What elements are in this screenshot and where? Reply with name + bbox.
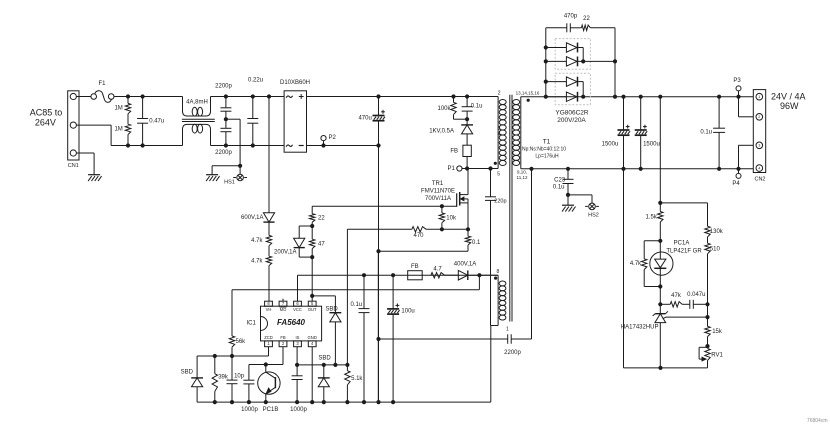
- svg-text:2: 2: [758, 115, 760, 119]
- svg-text:FB: FB: [411, 264, 419, 270]
- svg-text:0.47u: 0.47u: [149, 119, 164, 125]
- svg-text:0.1: 0.1: [472, 240, 481, 246]
- svg-text:SBD: SBD: [318, 356, 331, 362]
- svg-text:10p: 10p: [234, 373, 245, 379]
- svg-text:TR1: TR1: [432, 181, 444, 187]
- svg-text:OUT: OUT: [308, 307, 317, 312]
- svg-text:0.22u: 0.22u: [248, 77, 263, 83]
- svg-text:FB: FB: [280, 335, 286, 340]
- svg-text:4.7k: 4.7k: [251, 258, 263, 264]
- svg-text:T1: T1: [543, 139, 551, 146]
- svg-text:5.1k: 5.1k: [351, 376, 363, 382]
- svg-text:CN1: CN1: [68, 163, 79, 169]
- svg-text:P4: P4: [732, 181, 740, 187]
- svg-text:SBD: SBD: [325, 306, 338, 312]
- svg-text:1500u: 1500u: [602, 141, 619, 147]
- svg-text:13,14,15,16: 13,14,15,16: [516, 90, 540, 95]
- svg-text:IC1: IC1: [246, 320, 256, 326]
- svg-text:22: 22: [583, 16, 590, 22]
- svg-text:0.1u: 0.1u: [553, 185, 565, 191]
- svg-text:Lp=176uH: Lp=176uH: [535, 154, 559, 160]
- svg-text:2200p: 2200p: [215, 84, 232, 90]
- svg-text:200V/20A: 200V/20A: [557, 117, 586, 124]
- svg-text:D10XB60H: D10XB60H: [280, 80, 310, 86]
- svg-text:15k: 15k: [712, 329, 723, 335]
- svg-text:1: 1: [758, 95, 760, 99]
- svg-text:P2: P2: [329, 135, 337, 141]
- svg-text:1000p: 1000p: [241, 407, 258, 413]
- svg-text:GND: GND: [308, 335, 317, 340]
- svg-text:P3: P3: [733, 78, 741, 84]
- svg-text:P1: P1: [447, 166, 455, 172]
- svg-text:YG806C2R: YG806C2R: [555, 110, 589, 117]
- svg-text:8: 8: [497, 269, 500, 275]
- svg-text:11,12: 11,12: [517, 175, 528, 180]
- svg-text:470p: 470p: [564, 13, 578, 19]
- svg-text:F1: F1: [98, 81, 106, 87]
- svg-text:HS2: HS2: [588, 213, 599, 219]
- svg-text:0.1u: 0.1u: [351, 302, 363, 308]
- svg-text:200V,1A: 200V,1A: [274, 250, 296, 256]
- svg-text:56k: 56k: [236, 339, 247, 345]
- svg-text:47: 47: [318, 241, 325, 247]
- svg-text:400V,1A: 400V,1A: [454, 261, 476, 267]
- svg-text:22: 22: [318, 215, 325, 221]
- svg-text:0.047u: 0.047u: [687, 292, 705, 298]
- svg-text:220p: 220p: [494, 198, 506, 204]
- svg-text:1500u: 1500u: [643, 141, 660, 147]
- svg-text:4.7k: 4.7k: [630, 261, 642, 267]
- svg-text:4.7: 4.7: [433, 266, 442, 272]
- svg-text:76804cm: 76804cm: [807, 418, 828, 424]
- svg-text:CN2: CN2: [754, 176, 765, 182]
- svg-text:4A,8mH: 4A,8mH: [186, 100, 208, 106]
- svg-text:96W: 96W: [780, 101, 799, 111]
- svg-text:100k: 100k: [437, 106, 451, 112]
- svg-text:TLP421F GR: TLP421F GR: [666, 248, 702, 254]
- svg-text:470u: 470u: [358, 115, 371, 121]
- svg-text:FB: FB: [450, 148, 458, 154]
- svg-text:5: 5: [497, 172, 500, 178]
- svg-text:1M: 1M: [114, 126, 122, 132]
- svg-text:9,10,: 9,10,: [517, 169, 527, 174]
- svg-text:1: 1: [506, 327, 509, 333]
- svg-text:RV1: RV1: [711, 353, 723, 359]
- svg-text:SBD: SBD: [181, 369, 194, 375]
- svg-text:VCC: VCC: [293, 307, 302, 312]
- svg-text:39k: 39k: [218, 375, 229, 381]
- svg-text:2200p: 2200p: [215, 150, 232, 156]
- svg-text:PC1B: PC1B: [263, 407, 279, 413]
- svg-text:AC85 to: AC85 to: [30, 107, 63, 117]
- svg-text:10k: 10k: [446, 215, 457, 221]
- svg-text:3: 3: [758, 144, 760, 148]
- svg-text:0.1u: 0.1u: [471, 104, 483, 110]
- svg-text:MO: MO: [280, 307, 287, 312]
- svg-text:C23: C23: [554, 177, 566, 183]
- svg-text:ZCD: ZCD: [264, 335, 273, 340]
- svg-text:24V / 4A: 24V / 4A: [771, 91, 806, 101]
- svg-text:FMV11N70E: FMV11N70E: [421, 188, 455, 194]
- svg-text:4: 4: [758, 166, 760, 170]
- svg-text:HA17432HUP: HA17432HUP: [621, 324, 659, 330]
- svg-text:470: 470: [413, 233, 424, 239]
- svg-text:700V/11A: 700V/11A: [425, 196, 451, 202]
- svg-text:100u: 100u: [401, 308, 414, 314]
- svg-text:PC1A: PC1A: [674, 240, 690, 246]
- svg-text:1KV,0.5A: 1KV,0.5A: [429, 128, 454, 134]
- svg-text:1000p: 1000p: [290, 407, 307, 413]
- svg-text:1M: 1M: [114, 106, 122, 112]
- svg-text:4: 4: [498, 132, 501, 138]
- svg-text:0.1u: 0.1u: [700, 129, 712, 135]
- svg-text:130k: 130k: [710, 229, 724, 235]
- svg-text:2: 2: [498, 90, 501, 96]
- svg-text:4.7k: 4.7k: [251, 238, 263, 244]
- svg-text:600V,1A: 600V,1A: [241, 215, 263, 221]
- svg-text:2200p: 2200p: [504, 350, 521, 356]
- svg-text:47k: 47k: [671, 293, 682, 299]
- svg-text:IS: IS: [296, 335, 300, 340]
- svg-text:510: 510: [710, 246, 721, 252]
- svg-text:Np:Ns:Nb=40:12:10: Np:Ns:Nb=40:12:10: [522, 147, 566, 153]
- svg-text:FA5640: FA5640: [277, 318, 306, 327]
- svg-text:VH: VH: [266, 307, 272, 312]
- svg-text:1.5k: 1.5k: [645, 214, 657, 220]
- svg-text:HS1: HS1: [224, 180, 235, 186]
- svg-text:264V: 264V: [35, 117, 56, 127]
